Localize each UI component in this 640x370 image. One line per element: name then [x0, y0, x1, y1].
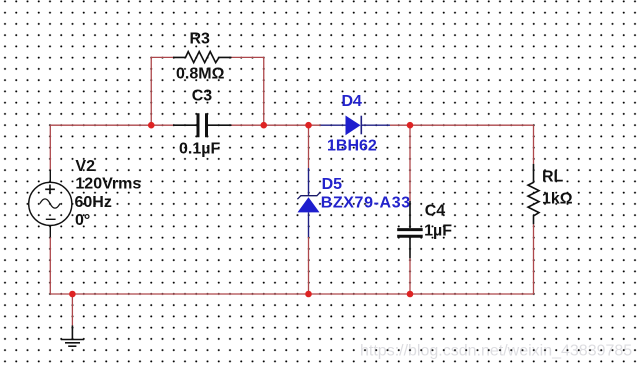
junction node top A: [148, 122, 155, 129]
svg-text:0.1µF: 0.1µF: [179, 140, 220, 157]
junction node bottom ground: [69, 291, 76, 298]
svg-text:C4: C4: [425, 203, 446, 220]
wire top rail right segment: [390, 124, 534, 126]
junction node top C: [305, 122, 312, 129]
wire bottom rail: [50, 293, 533, 295]
resistor R3: [173, 52, 232, 63]
wire C4 branch lower: [409, 258, 411, 294]
wire top rail left segment: [50, 124, 173, 126]
wire R3 loop: [151, 57, 264, 125]
resistor RL: [528, 164, 539, 224]
svg-text:1kΩ: 1kΩ: [542, 191, 573, 208]
svg-text:1µF: 1µF: [424, 223, 452, 240]
svg-text:RL: RL: [542, 169, 564, 186]
zener diode D5: [297, 168, 320, 237]
svg-text:R3: R3: [190, 30, 211, 47]
wire C4 branch upper: [409, 125, 411, 201]
source V2: [29, 170, 72, 238]
wire RL branch upper: [533, 125, 535, 164]
wire top rail mid segment: [232, 124, 321, 126]
junction node bottom C4: [407, 291, 414, 298]
wire left rail upper: [49, 125, 51, 170]
wire ground stem: [71, 294, 73, 325]
ground: [61, 325, 84, 346]
svg-text:1BH62: 1BH62: [327, 137, 377, 154]
capacitor C4: [397, 201, 423, 258]
wire D5 branch lower: [308, 237, 310, 294]
junction node top D: [407, 122, 414, 129]
wire left rail lower: [49, 237, 51, 294]
svg-text:120Vrms: 120Vrms: [75, 176, 141, 193]
svg-text:0°: 0°: [75, 212, 90, 229]
junction node bottom D5: [305, 291, 312, 298]
diode D4: [321, 116, 390, 136]
svg-text:D5: D5: [322, 176, 343, 193]
wire D5 branch upper: [308, 125, 310, 168]
junction node top B: [260, 122, 267, 129]
svg-text:0.8MΩ: 0.8MΩ: [176, 66, 225, 83]
wire RL branch lower: [533, 224, 535, 294]
svg-text:BZX79-A33: BZX79-A33: [321, 194, 411, 211]
svg-text:60Hz: 60Hz: [75, 194, 112, 211]
svg-text:D4: D4: [342, 93, 363, 110]
svg-text:V2: V2: [75, 158, 95, 175]
svg-text:C3: C3: [192, 88, 213, 105]
capacitor C3: [173, 113, 232, 137]
